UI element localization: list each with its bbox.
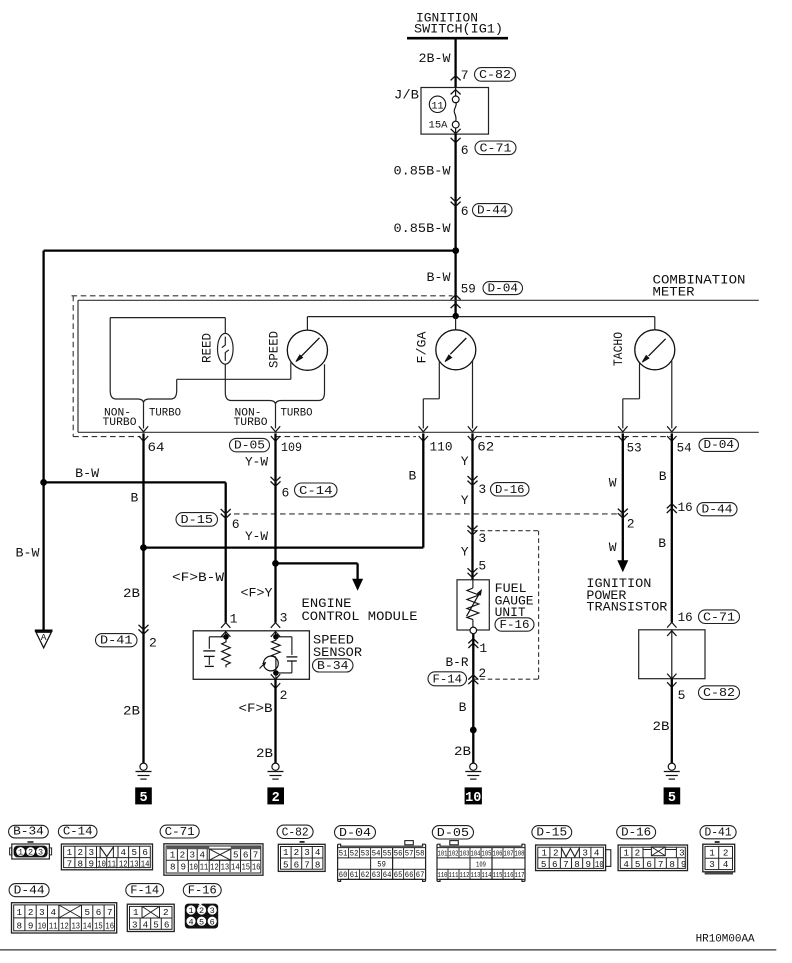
svg-text:10: 10	[465, 791, 481, 806]
svg-text:53: 53	[627, 441, 642, 456]
ground G1	[140, 763, 147, 770]
svg-text:8: 8	[669, 859, 675, 870]
svg-text:108: 108	[515, 850, 525, 858]
junction node wire64-wire110	[140, 544, 147, 551]
svg-text:3: 3	[582, 847, 588, 858]
wire from pin 110	[422, 433, 424, 547]
connector label C-71	[160, 825, 199, 838]
ground number 10	[465, 787, 482, 804]
svg-text:2: 2	[635, 847, 641, 858]
svg-text:52: 52	[350, 849, 359, 858]
connector C-14 pinout	[61, 844, 152, 870]
svg-text:2: 2	[478, 666, 486, 681]
svg-text:54: 54	[372, 849, 381, 858]
wire inside J/B	[455, 128, 457, 134]
svg-text:D-05: D-05	[234, 439, 265, 453]
connector D-05 pinout	[450, 841, 459, 845]
svg-text:4: 4	[143, 920, 149, 931]
tachometer gauge	[635, 330, 675, 370]
svg-text:65: 65	[394, 871, 403, 880]
merge bracket pin 109	[225, 393, 324, 405]
svg-text:TURBO: TURBO	[281, 408, 313, 420]
dashed harness box bottom	[73, 436, 140, 438]
connector D-15 pin 2 crossing	[618, 509, 628, 514]
svg-text:B-R: B-R	[446, 655, 469, 670]
svg-text:5: 5	[199, 917, 204, 927]
connector label C-14	[58, 825, 97, 838]
svg-text:13: 13	[72, 921, 81, 932]
svg-text:D-15: D-15	[181, 513, 214, 527]
svg-text:15: 15	[94, 921, 103, 932]
svg-text:14: 14	[141, 859, 150, 870]
connector label D-15	[532, 826, 572, 839]
fuel gauge sender box	[457, 580, 489, 630]
svg-text:8: 8	[170, 861, 176, 872]
speedometer gauge	[287, 330, 327, 370]
svg-text:1: 1	[17, 907, 23, 918]
svg-text:3: 3	[478, 531, 486, 546]
svg-text:16: 16	[252, 861, 261, 872]
junction node ECM branch	[272, 560, 279, 567]
svg-text:B-W: B-W	[75, 466, 99, 481]
fuse 11 circle label	[429, 96, 445, 112]
hall element arrow	[260, 663, 265, 668]
connector F-14 pinout	[127, 904, 174, 931]
svg-text:64: 64	[148, 440, 165, 455]
svg-text:TURBO: TURBO	[103, 417, 137, 429]
svg-text:54: 54	[677, 441, 692, 456]
svg-text:F-16: F-16	[500, 618, 530, 632]
svg-text:5: 5	[668, 791, 676, 806]
speed sensor pin 2 exit	[271, 674, 280, 679]
svg-text:63: 63	[372, 871, 381, 880]
svg-text:104: 104	[471, 850, 481, 858]
svg-text:16: 16	[105, 921, 114, 932]
svg-text:8: 8	[315, 859, 321, 870]
svg-text:D-44: D-44	[14, 884, 45, 898]
connector F-16 pinout	[185, 904, 218, 929]
svg-text:2B: 2B	[123, 703, 140, 718]
svg-text:62: 62	[477, 439, 494, 454]
svg-text:12: 12	[60, 921, 69, 932]
combination meter box top edge	[78, 299, 759, 301]
svg-text:66: 66	[405, 871, 414, 880]
bottom border line	[0, 949, 776, 951]
svg-text:61: 61	[350, 871, 359, 880]
svg-text:2B: 2B	[256, 746, 273, 761]
svg-text:1: 1	[709, 848, 715, 859]
wire to speed sensor pin 1	[225, 482, 227, 622]
fuel sender arrow	[467, 593, 480, 617]
capacitor C-left	[203, 650, 215, 652]
wire from sensor pin 2 to ground	[274, 679, 276, 763]
svg-text:114: 114	[482, 872, 492, 880]
svg-text:10: 10	[595, 859, 604, 870]
svg-text:11: 11	[431, 101, 443, 112]
svg-text:2: 2	[149, 635, 157, 650]
svg-text:1: 1	[479, 641, 487, 656]
svg-text:7: 7	[67, 859, 73, 870]
svg-text:5: 5	[635, 859, 641, 870]
svg-text:16: 16	[678, 500, 693, 515]
svg-text:2B: 2B	[454, 744, 471, 759]
svg-text:D-15: D-15	[536, 826, 567, 840]
svg-text:B-34: B-34	[13, 825, 44, 839]
fuel gauge F/GA	[436, 330, 476, 370]
pin 62 label	[468, 436, 477, 441]
connector label F-16	[183, 884, 221, 897]
svg-text:2: 2	[180, 849, 186, 860]
svg-text:1: 1	[170, 849, 176, 860]
wire from pin 53	[622, 433, 624, 566]
svg-text:CONTROL MODULE: CONTROL MODULE	[302, 609, 418, 624]
svg-text:2: 2	[199, 906, 204, 916]
connector D-41 pinout	[715, 841, 720, 843]
svg-text:1: 1	[624, 847, 630, 858]
merge bracket pin 64	[110, 391, 177, 404]
svg-text:D-04: D-04	[488, 281, 519, 295]
svg-text:7: 7	[658, 859, 664, 870]
svg-text:116: 116	[504, 872, 514, 880]
svg-text:53: 53	[361, 849, 370, 858]
svg-text:55: 55	[383, 849, 392, 858]
svg-text:4: 4	[199, 849, 205, 860]
connector D-04 label row	[699, 438, 739, 451]
svg-text:4: 4	[50, 907, 56, 918]
svg-text:1: 1	[230, 612, 238, 627]
svg-text:C-82: C-82	[703, 686, 735, 700]
svg-text:5: 5	[678, 688, 686, 703]
svg-text:REED: REED	[200, 333, 214, 363]
svg-text:METER: METER	[653, 285, 695, 300]
wire f/ga branch to pin 62	[472, 361, 474, 428]
svg-text:2: 2	[294, 847, 300, 858]
svg-text:3: 3	[304, 847, 310, 858]
wire speed top stub	[306, 317, 308, 331]
hall element circle	[264, 656, 279, 671]
connector D-16 pin 3 inline	[468, 476, 478, 481]
svg-text:3: 3	[38, 848, 43, 858]
svg-text:115: 115	[493, 872, 503, 880]
svg-text:4: 4	[121, 847, 127, 858]
svg-text:5: 5	[131, 847, 137, 858]
svg-text:12: 12	[210, 861, 219, 872]
connector D-44 pinout	[12, 903, 117, 933]
relay box exit chevrons	[667, 674, 676, 679]
wire reed bottom drop	[224, 364, 226, 392]
connector C-71 pinout	[164, 844, 263, 875]
svg-text:56: 56	[394, 849, 403, 858]
junction node left B-W	[40, 479, 47, 486]
svg-text:14: 14	[83, 921, 92, 932]
svg-text:D-44: D-44	[477, 203, 508, 217]
svg-text:10: 10	[189, 861, 198, 872]
connector D-16 pinout	[618, 845, 687, 871]
svg-text:3: 3	[280, 610, 288, 625]
svg-text:117: 117	[515, 872, 525, 880]
svg-text:57: 57	[405, 849, 414, 858]
svg-text:59: 59	[377, 859, 386, 869]
svg-text:12: 12	[119, 859, 128, 870]
svg-text:7: 7	[304, 859, 310, 870]
combination meter box bottom edge	[78, 431, 759, 433]
wire 2B-W from ignition switch	[454, 38, 456, 87]
svg-text:2B: 2B	[653, 719, 670, 734]
ground number 5 right	[664, 787, 681, 804]
svg-text:6: 6	[461, 143, 469, 158]
svg-text:15: 15	[241, 861, 250, 872]
svg-text:9: 9	[88, 859, 94, 870]
svg-text:D-16: D-16	[495, 483, 525, 497]
svg-text:C-82: C-82	[282, 825, 309, 839]
fuel gauge unit pin 1 exit	[468, 639, 478, 644]
connector C-14 pin 6 inline	[271, 477, 281, 482]
pin 110 label	[419, 436, 428, 441]
svg-text:C-14: C-14	[63, 825, 93, 839]
svg-text:6: 6	[210, 917, 215, 927]
pin 54 label	[667, 436, 676, 441]
speed sensor box	[193, 631, 309, 680]
svg-text:2: 2	[280, 688, 288, 703]
svg-text:6: 6	[552, 859, 558, 870]
svg-text:2: 2	[28, 848, 33, 858]
svg-text:D-44: D-44	[702, 503, 733, 517]
svg-text:11: 11	[49, 921, 58, 932]
svg-text:8: 8	[574, 859, 580, 870]
svg-text:Y: Y	[461, 454, 469, 469]
svg-text:9: 9	[28, 921, 34, 932]
chevron leaving J/B	[451, 129, 461, 134]
connector C-82 pin 7	[451, 76, 461, 81]
wire from pin 109	[274, 433, 276, 622]
svg-text:4: 4	[188, 917, 193, 927]
svg-text:3: 3	[709, 859, 715, 870]
svg-text:8: 8	[78, 859, 84, 870]
svg-text:B: B	[459, 700, 467, 715]
svg-text:D-04: D-04	[704, 438, 735, 452]
svg-text:C-14: C-14	[299, 484, 333, 498]
ground G3	[470, 763, 477, 770]
svg-text:6: 6	[294, 859, 300, 870]
wire B-W left drop	[42, 251, 44, 631]
wire from pin 64	[142, 433, 144, 763]
svg-text:3: 3	[88, 847, 94, 858]
svg-text:7: 7	[253, 849, 259, 860]
svg-text:D-16: D-16	[621, 826, 651, 840]
svg-text:102: 102	[449, 850, 459, 858]
svg-text:3: 3	[679, 847, 685, 858]
connector D-44 pin 6 inline	[451, 197, 461, 202]
svg-text:5: 5	[541, 859, 547, 870]
fuel sender variable resistor	[472, 580, 474, 588]
svg-text:8: 8	[17, 921, 23, 932]
svg-text:110: 110	[438, 872, 448, 880]
svg-text:C-71: C-71	[480, 141, 512, 155]
connector label D-16	[617, 826, 656, 839]
svg-text:109: 109	[281, 440, 302, 455]
svg-text:9: 9	[585, 859, 591, 870]
svg-text:16: 16	[678, 610, 693, 625]
speed sensor internal wire pin3	[275, 631, 277, 637]
svg-text:2: 2	[627, 517, 635, 532]
reed switch	[218, 333, 234, 364]
svg-text:60: 60	[339, 871, 348, 880]
connector D-41 pin 2 inline	[139, 625, 149, 630]
svg-text:14: 14	[231, 861, 240, 872]
svg-text:Y-W: Y-W	[245, 529, 268, 544]
svg-text:113: 113	[471, 872, 481, 880]
wire reed feed	[110, 317, 225, 319]
resistor R-left	[222, 639, 231, 667]
svg-text:1: 1	[67, 847, 73, 858]
svg-text:C-71: C-71	[165, 825, 195, 839]
svg-text:TRANSISTOR: TRANSISTOR	[586, 599, 667, 614]
svg-text:10: 10	[38, 921, 47, 932]
svg-text:3: 3	[210, 906, 215, 916]
svg-text:11: 11	[108, 859, 117, 870]
connector label C-82	[277, 825, 313, 838]
svg-text:7: 7	[563, 859, 569, 870]
connector C-82 pinout	[300, 841, 305, 843]
connector D-04 pinout	[405, 841, 414, 845]
svg-text:B-W: B-W	[16, 545, 40, 560]
fuel sender terminal circle	[470, 627, 477, 634]
svg-text:2B-W: 2B-W	[419, 51, 451, 66]
svg-text:C-71: C-71	[703, 610, 735, 624]
svg-text:<F>B-W: <F>B-W	[172, 570, 224, 585]
svg-text:5: 5	[139, 791, 147, 806]
svg-text:Y: Y	[461, 545, 469, 560]
wire branch to engine control module	[276, 562, 358, 564]
connector label F-14	[126, 884, 164, 897]
wire f/ga wiper branch to pin 110	[438, 361, 440, 399]
junction node gauge feed	[453, 313, 459, 319]
wire gauge feed speed-tacho	[307, 316, 654, 318]
svg-text:10: 10	[97, 859, 106, 870]
svg-text:59: 59	[461, 282, 476, 297]
svg-text:Y: Y	[461, 493, 469, 508]
pin 109 label	[271, 436, 280, 441]
junction node sensor pin3 bottom	[273, 670, 279, 676]
wire speed turbo branch	[324, 364, 326, 392]
svg-text:6: 6	[164, 920, 170, 931]
connector label B-34	[9, 825, 49, 838]
svg-text:6: 6	[232, 517, 240, 532]
svg-text:SENSOR: SENSOR	[313, 645, 362, 660]
svg-text:2B: 2B	[123, 586, 140, 601]
svg-text:1: 1	[541, 847, 547, 858]
connector D-15 dashed line	[234, 513, 621, 515]
svg-text:64: 64	[383, 871, 392, 880]
svg-text:6: 6	[646, 859, 652, 870]
svg-text:4: 4	[594, 847, 600, 858]
svg-text:2: 2	[272, 791, 280, 806]
svg-text:51: 51	[339, 849, 348, 858]
svg-text:105: 105	[482, 850, 492, 858]
wire speed wiper branch	[290, 362, 292, 379]
svg-text:6: 6	[282, 485, 290, 500]
svg-text:7: 7	[107, 907, 113, 918]
svg-text:0.85B-W: 0.85B-W	[394, 164, 451, 179]
svg-text:1: 1	[133, 907, 139, 918]
svg-text:HR10M00AA: HR10M00AA	[696, 934, 755, 946]
wire B-W branch to left	[44, 249, 456, 251]
svg-text:B: B	[409, 469, 417, 484]
svg-text:6: 6	[243, 849, 249, 860]
svg-text:112: 112	[460, 872, 470, 880]
svg-text:1: 1	[283, 847, 289, 858]
svg-text:B-W: B-W	[427, 270, 451, 285]
svg-text:6: 6	[96, 907, 102, 918]
svg-text:107: 107	[504, 850, 514, 858]
svg-text:B: B	[131, 491, 139, 506]
capacitor C-right	[276, 636, 292, 638]
svg-text:106: 106	[493, 850, 503, 858]
svg-text:<F>Y: <F>Y	[241, 585, 273, 600]
connector label D-41	[700, 826, 736, 839]
connector B-34 pinout	[12, 844, 50, 859]
svg-text:TURBO: TURBO	[234, 417, 268, 429]
svg-text:W: W	[609, 540, 617, 555]
connector C-71 pin 16 box entry	[667, 622, 676, 627]
wire arrow to pin 109	[275, 405, 277, 429]
svg-text:2: 2	[28, 907, 34, 918]
junction node sensor pin3 top	[273, 634, 279, 640]
wire main drop to fuel gauge	[455, 316, 457, 330]
pin 64 label	[139, 436, 148, 441]
svg-text:67: 67	[416, 871, 425, 880]
svg-text:B: B	[659, 469, 667, 484]
svg-text:3: 3	[478, 482, 486, 497]
resistor R-right	[272, 637, 281, 657]
svg-text:F-14: F-14	[130, 884, 159, 898]
svg-text:D-04: D-04	[339, 826, 371, 840]
wire reed top stub	[224, 318, 226, 334]
svg-text:2: 2	[723, 848, 729, 859]
svg-text:4: 4	[623, 859, 629, 870]
wire tacho wiper branch to pin 53	[639, 363, 641, 399]
svg-text:103: 103	[460, 850, 470, 858]
svg-text:3: 3	[132, 920, 138, 931]
svg-text:2: 2	[78, 847, 84, 858]
wire 54 to ground	[671, 679, 673, 763]
svg-text:F-16: F-16	[188, 884, 217, 898]
fuse element 15A	[452, 96, 459, 103]
dashed harness box left	[72, 296, 74, 437]
connector D-15 pinout	[536, 845, 606, 871]
svg-text:SWITCH(IG1): SWITCH(IG1)	[414, 22, 503, 37]
junction node main B-W	[452, 247, 459, 254]
wire from pin 54	[671, 433, 673, 622]
ground G4	[668, 763, 675, 770]
svg-text:5: 5	[84, 907, 90, 918]
svg-text:9: 9	[180, 861, 186, 872]
svg-text:111: 111	[449, 872, 459, 880]
svg-text:<F>B: <F>B	[239, 701, 273, 716]
svg-text:15A: 15A	[429, 119, 449, 131]
svg-text:1: 1	[18, 848, 23, 858]
junction block box	[421, 88, 489, 135]
svg-text:3: 3	[39, 907, 45, 918]
connector D-15 pin 6 inline	[221, 509, 231, 514]
svg-text:F-14: F-14	[433, 673, 463, 687]
svg-text:5: 5	[478, 559, 486, 574]
wire tacho top stub	[654, 317, 656, 330]
svg-text:F/GA: F/GA	[415, 331, 429, 364]
fuel gauge unit pin 3 entry	[468, 526, 478, 531]
svg-text:C-82: C-82	[479, 68, 511, 82]
svg-text:7: 7	[461, 68, 469, 83]
